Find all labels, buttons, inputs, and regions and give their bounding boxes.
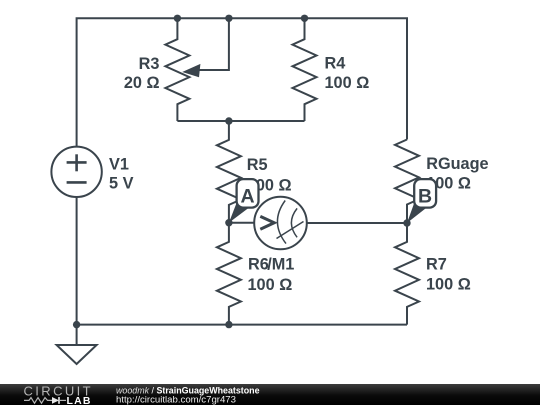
wire mid rail joining R3 and R4 bottoms	[177, 120, 304, 122]
resistor R6	[217, 223, 241, 325]
svg-text:100 Ω: 100 Ω	[248, 276, 293, 294]
node B callout box	[414, 179, 436, 208]
junction dot R5 top	[225, 117, 232, 124]
junction dot R3 top	[174, 15, 181, 22]
svg-text:RGuage: RGuage	[426, 155, 488, 173]
svg-text:R6/M1: R6/M1	[248, 256, 294, 274]
svg-text:R5: R5	[247, 156, 268, 174]
V1 plus sign	[67, 161, 87, 164]
wire top rail from V1 to right branch	[77, 18, 407, 146]
wire bottom rail	[77, 324, 407, 326]
meter M1 circle	[254, 197, 307, 250]
ground stub wire	[76, 325, 78, 345]
junction dot node A	[225, 219, 232, 226]
wire node A to meter M1	[229, 222, 254, 224]
junction dot ground	[73, 321, 80, 328]
resistor R5	[217, 121, 241, 223]
svg-text:20 Ω: 20 Ω	[124, 74, 160, 92]
svg-text:V1: V1	[109, 155, 129, 173]
junction dot R4 top	[301, 15, 308, 22]
resistor RGuage	[395, 140, 419, 223]
voltage source V1 circle	[51, 147, 101, 197]
svg-text:A: A	[240, 185, 254, 207]
junction dot wiper top	[225, 15, 232, 22]
svg-text:http://circuitlab.com/c7gr473: http://circuitlab.com/c7gr473	[116, 394, 236, 405]
wire meter M1 to node B	[307, 222, 407, 224]
logo resistor squiggle	[24, 398, 52, 404]
meter M1 dial arc 1	[277, 201, 286, 244]
svg-text:LAB: LAB	[67, 395, 92, 405]
svg-text:R3: R3	[139, 55, 160, 73]
meter M1 chevron glyph	[260, 216, 274, 229]
node A callout tail	[229, 201, 249, 223]
junction dot R6 bottom	[225, 321, 232, 328]
node B callout tail	[407, 201, 427, 224]
meter M1 needle	[277, 222, 304, 239]
svg-text:100 Ω: 100 Ω	[325, 74, 370, 92]
svg-text:B: B	[418, 185, 432, 207]
svg-text:R7: R7	[426, 255, 447, 273]
footer bar	[0, 384, 540, 405]
ground triangle	[57, 345, 97, 364]
V1 minus sign	[67, 181, 87, 184]
svg-text:5 V: 5 V	[109, 174, 134, 192]
wire R3 wiper from top rail	[199, 18, 229, 70]
resistor R3 body (potentiometer)	[165, 18, 189, 121]
R3 wiper arrow head	[182, 64, 200, 77]
svg-text:R4: R4	[325, 54, 346, 72]
resistor R7	[395, 223, 419, 325]
meter M1 dial arc 2	[291, 208, 297, 237]
resistor R4	[293, 18, 317, 121]
junction dot node B	[403, 219, 410, 226]
node A callout box	[237, 179, 259, 208]
logo diode symbol	[52, 397, 59, 404]
wire left rail below V1	[76, 197, 78, 325]
svg-text:100 Ω: 100 Ω	[426, 276, 471, 294]
